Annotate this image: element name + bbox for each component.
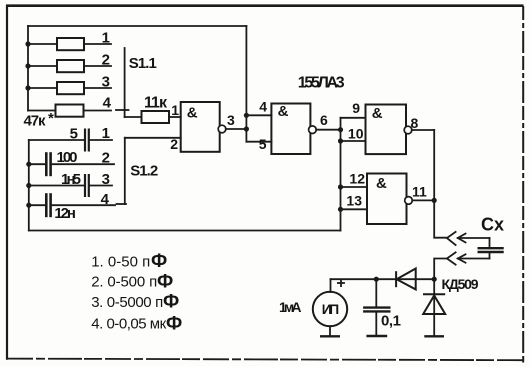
capacitor C4 12n plates bbox=[46, 193, 50, 217]
svg-text:5: 5 bbox=[70, 126, 78, 143]
capacitor C1 5pF plates bbox=[85, 129, 89, 152]
node: bus junction row2 bbox=[25, 63, 30, 68]
node filter cap junction bbox=[374, 277, 379, 282]
resistor R1-4 bbox=[56, 105, 84, 117]
op gate U1.2 body bbox=[271, 104, 310, 155]
connector plug arrow 2 bbox=[458, 254, 490, 262]
wire to pin 10 bbox=[341, 140, 366, 142]
wire pin8 output bbox=[412, 129, 434, 131]
svg-text:1: 1 bbox=[171, 102, 179, 118]
wire row4 left bbox=[28, 110, 56, 112]
svg-text:4: 4 bbox=[101, 191, 110, 208]
wire S1.2 to pin2 bbox=[125, 137, 181, 139]
diode VD1 triangle bbox=[397, 269, 416, 290]
svg-text:3: 3 bbox=[102, 74, 110, 91]
node J2 pin12 tee bbox=[338, 184, 343, 189]
wire cap row2 right to contact 2 bbox=[52, 163, 114, 165]
connector socket 2 bbox=[447, 252, 456, 264]
wire row3 right to contact 3 bbox=[84, 87, 111, 89]
svg-text:155ЛА3: 155ЛА3 bbox=[298, 75, 345, 92]
svg-text:Ф: Ф bbox=[163, 292, 179, 313]
wire pin11 output bbox=[412, 199, 434, 201]
wire to pin 12 bbox=[341, 186, 368, 188]
diode VD2 cathode bar bbox=[423, 293, 445, 295]
wire cap row3 right to contact 3 bbox=[90, 185, 112, 187]
svg-text:2: 2 bbox=[102, 52, 110, 69]
svg-text:КД509: КД509 bbox=[442, 276, 479, 292]
svg-text:10: 10 bbox=[348, 126, 364, 142]
ground of VD2 bbox=[424, 335, 444, 337]
svg-text:Ф: Ф bbox=[166, 314, 182, 335]
ground of meter bbox=[320, 335, 340, 337]
wire row1 left bbox=[28, 43, 57, 45]
node: bus junction row3 bbox=[25, 85, 30, 90]
inverter bubble U1.2 bbox=[309, 126, 317, 134]
svg-text:Ф: Ф bbox=[157, 272, 173, 293]
wire cap row1 right to contact 1 bbox=[90, 139, 112, 141]
svg-text:S1.2: S1.2 bbox=[130, 163, 158, 180]
switch S1.2 wiper rail bbox=[124, 138, 126, 204]
svg-text:2: 2 bbox=[102, 150, 110, 167]
svg-text:5: 5 bbox=[259, 136, 267, 152]
node J2 pin13 tee bbox=[338, 207, 343, 212]
svg-text:12н: 12н bbox=[54, 205, 76, 222]
svg-text:*: * bbox=[48, 110, 54, 127]
svg-text:&: & bbox=[376, 175, 387, 192]
wire row4 right to contact 4 bbox=[84, 110, 112, 112]
wire S1.1 to R2 bbox=[125, 116, 142, 118]
wire cap row3 left bbox=[29, 185, 84, 187]
wire bottom bus to gate inputs bbox=[29, 230, 341, 232]
svg-text:3: 3 bbox=[102, 171, 110, 188]
node cbus row3 bbox=[26, 183, 31, 188]
svg-text:8: 8 bbox=[411, 115, 419, 131]
wire cap row2 left bbox=[29, 163, 45, 165]
node J1 pin4 tee bbox=[244, 113, 249, 118]
svg-text:4: 4 bbox=[103, 95, 112, 112]
capacitor C2 100pF plates bbox=[46, 152, 50, 176]
wire pin3 output bbox=[226, 128, 247, 130]
wire node column J1 bbox=[245, 26, 247, 142]
wire node column J2 bbox=[340, 118, 342, 231]
svg-text:1. 0-50 п: 1. 0-50 п bbox=[91, 254, 150, 271]
op gate U1.3 body bbox=[366, 105, 407, 155]
inverter bubble U1.3 bbox=[404, 126, 412, 134]
diode VD1 cathode bar bbox=[395, 271, 397, 287]
capacitor C 0.1 plates bbox=[363, 308, 390, 312]
capacitor C 0.1 bottom lead bbox=[375, 312, 377, 335]
svg-text:13: 13 bbox=[346, 193, 362, 209]
svg-text:47к: 47к bbox=[24, 113, 46, 130]
wire to pin 4 bbox=[246, 114, 271, 116]
switch S1.2 wiper contact tick bbox=[117, 203, 127, 205]
ground of C 0.1 bbox=[366, 335, 387, 337]
wire cap row4 right to contact 4 bbox=[52, 204, 115, 206]
wire to pin 13 bbox=[341, 208, 368, 210]
node: bus junction row1 bbox=[25, 41, 30, 46]
svg-text:Cx: Cx bbox=[481, 214, 504, 234]
resistor R1-1 bbox=[57, 38, 84, 50]
diode VD2 vertical wire bbox=[433, 279, 435, 336]
svg-text:11: 11 bbox=[412, 184, 427, 200]
svg-text:&: & bbox=[372, 105, 383, 122]
wire: resistor-bank top feed to gates bbox=[28, 25, 246, 27]
wire row1 right to contact 1 bbox=[84, 43, 111, 45]
svg-text:9: 9 bbox=[352, 100, 360, 116]
svg-text:3: 3 bbox=[227, 112, 235, 128]
connector socket 1 bbox=[447, 232, 456, 245]
svg-text:4: 4 bbox=[259, 99, 267, 115]
svg-text:1н5: 1н5 bbox=[61, 171, 81, 188]
capacitor C 0.1 top lead bbox=[375, 279, 377, 307]
svg-text:&: & bbox=[278, 103, 289, 120]
resistor R1-2 bbox=[57, 60, 84, 72]
capacitor Cx plates bbox=[478, 248, 504, 252]
node J1 pin3 tee bbox=[244, 126, 249, 131]
meter PA1 bottom lead bbox=[329, 326, 331, 335]
svg-text:S1.1: S1.1 bbox=[129, 55, 157, 72]
svg-text:ИП: ИП bbox=[322, 301, 340, 317]
svg-text:1: 1 bbox=[102, 125, 110, 142]
diode VD2 triangle bbox=[423, 296, 445, 315]
node cbus row2 bbox=[26, 162, 31, 167]
svg-text:4. 0-0,05 мк: 4. 0-0,05 мк bbox=[91, 316, 166, 333]
op gate U1.4 body bbox=[367, 174, 407, 225]
node J2 pin6 tee bbox=[338, 127, 343, 132]
wire cap row4 left bbox=[29, 204, 45, 206]
svg-text:&: & bbox=[187, 105, 198, 122]
svg-text:6: 6 bbox=[320, 112, 328, 128]
wire row2 right to contact 2 bbox=[84, 65, 111, 67]
svg-text:2. 0-500 п: 2. 0-500 п bbox=[91, 274, 157, 291]
svg-text:Ф: Ф bbox=[151, 251, 167, 272]
plus sign of meter bbox=[338, 280, 344, 286]
switch S1.1 wiper contact tick bbox=[116, 109, 129, 111]
svg-text:1мА: 1мА bbox=[279, 299, 302, 315]
meter PA1 circle bbox=[313, 292, 347, 326]
node cbus row4 bbox=[26, 203, 31, 208]
wire row3 left bbox=[28, 87, 57, 89]
capacitor Cx top lead bbox=[489, 238, 491, 247]
wire: resistor bank left bus bbox=[27, 26, 29, 111]
capacitor bank left bus bbox=[28, 140, 30, 231]
wire row2 left bbox=[28, 65, 57, 67]
capacitor Cx bottom lead bbox=[489, 253, 491, 258]
svg-text:11к: 11к bbox=[144, 95, 168, 112]
svg-text:12: 12 bbox=[349, 171, 365, 187]
svg-text:1: 1 bbox=[102, 30, 110, 47]
connector plug arrow 1 bbox=[458, 234, 490, 243]
wire pin8 column down to probe 1 bbox=[434, 130, 446, 238]
inverter bubble U1.4 bbox=[405, 197, 413, 205]
resistor R2 11k bbox=[142, 111, 170, 123]
wire to pin 5 bbox=[246, 141, 271, 143]
wire probe 2 to rectifier node bbox=[434, 259, 447, 280]
inverter bubble U1.1 bbox=[218, 125, 226, 133]
node rectifier junction bbox=[432, 277, 437, 282]
op gate U1.1 body bbox=[181, 102, 220, 152]
svg-text:0,1: 0,1 bbox=[381, 313, 401, 330]
wire cap row1 left bbox=[29, 139, 84, 141]
meter PA1 top lead bbox=[330, 279, 332, 292]
wire to pin 9 bbox=[341, 117, 366, 119]
node J2 pin10 tee bbox=[338, 138, 343, 143]
switch S1.1 wiper rail bbox=[124, 48, 126, 117]
svg-text:3. 0-5000 п: 3. 0-5000 п bbox=[91, 294, 163, 311]
svg-text:100: 100 bbox=[57, 149, 78, 166]
capacitor C3 1n5 plates bbox=[85, 174, 89, 197]
node pin8/pin11 join bbox=[432, 198, 437, 203]
resistor R1-3 bbox=[57, 82, 84, 94]
wire meter rail bbox=[331, 278, 435, 280]
wire pin6 output bbox=[316, 129, 340, 131]
wire R2 to pin1 bbox=[169, 116, 181, 118]
